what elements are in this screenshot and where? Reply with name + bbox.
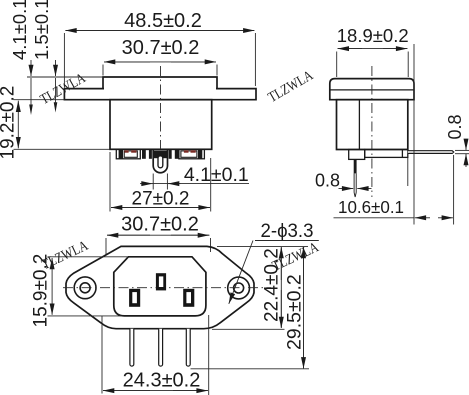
svg-text:0.8: 0.8 xyxy=(445,114,465,139)
label 4.1 leader and arrows xyxy=(30,60,32,76)
svg-text:2-ϕ3.3: 2-ϕ3.3 xyxy=(261,221,314,242)
svg-text:24.3±0.2: 24.3±0.2 xyxy=(123,369,201,391)
dim 48.5 line xyxy=(66,30,254,32)
svg-text:0.8: 0.8 xyxy=(315,171,340,191)
ext line 22.4 bottom xyxy=(212,328,285,330)
view3 right mounting hole xyxy=(228,277,250,299)
view3 right pin xyxy=(183,289,194,307)
dim 4.1 bottom shelf xyxy=(152,183,249,185)
ext line pins bottom xyxy=(191,368,310,370)
view1 tab top dark band xyxy=(153,151,167,159)
ext line strip right edge xyxy=(407,158,409,187)
ext line flange bottom left xyxy=(14,99,65,101)
dim 0.8 right arrows xyxy=(465,140,467,150)
dim 4.1 bottom arrows xyxy=(140,183,153,185)
view1 face housing xyxy=(103,77,217,89)
view2 body xyxy=(337,100,408,150)
view3 leg 1 xyxy=(130,329,134,366)
view1 terminal bar C xyxy=(169,149,172,159)
dim 15.9 line xyxy=(51,258,53,290)
view2 flange cap xyxy=(330,79,414,100)
svg-text:29.5±0.2: 29.5±0.2 xyxy=(284,274,306,350)
ext line body bottom left xyxy=(14,148,111,150)
dim 22.4 line xyxy=(280,248,282,328)
svg-text:4.1±0.1: 4.1±0.1 xyxy=(184,164,249,186)
view1 terminal bar D xyxy=(175,149,179,159)
view3 leg 3 xyxy=(186,329,190,366)
view1 flange plate xyxy=(64,89,256,100)
view3 ground pin xyxy=(156,273,166,290)
dim 30.7 ext lines (view1) xyxy=(102,65,104,76)
view1 terminal left inner xyxy=(124,151,137,157)
dim 19.2 line xyxy=(17,101,19,120)
view1 terminal bar A xyxy=(142,149,146,159)
dim 29.5 line xyxy=(303,248,305,369)
ext line face top left xyxy=(27,76,103,78)
dim 24.3 ext lines xyxy=(101,316,103,394)
view2 bottom strip left xyxy=(349,150,365,160)
ext line plate top right xyxy=(217,245,308,247)
view1 tab hole xyxy=(158,156,163,168)
view1 center screw tab xyxy=(153,149,167,172)
view2 bottom strip right xyxy=(365,150,408,158)
dim 0.8 left arrows xyxy=(339,188,354,190)
label 2-phi3.3 leader xyxy=(229,241,253,304)
view2 strip divider xyxy=(401,150,403,158)
svg-text:30.7±0.2: 30.7±0.2 xyxy=(121,213,199,235)
dim 10.6 arrows xyxy=(415,217,430,219)
view2 vertical pin xyxy=(354,159,357,173)
dim 27 line xyxy=(111,207,210,209)
dim 27 ext lines xyxy=(109,152,111,212)
dim 4.1 bottom ext lines xyxy=(152,174,154,190)
svg-text:48.5±0.2: 48.5±0.2 xyxy=(124,10,202,32)
view3 mounting plate octagon xyxy=(66,246,254,328)
view1 terminal left red marks xyxy=(124,150,128,152)
view3 left pin xyxy=(129,289,140,307)
view1 terminal bar B xyxy=(149,149,152,159)
svg-text:30.7±0.2: 30.7±0.2 xyxy=(122,37,200,59)
dim 0.8 right ext ticks xyxy=(455,149,469,151)
dim 15.9 ext ticks xyxy=(48,256,128,258)
dim 18.9 ext lines xyxy=(336,52,338,78)
view1 terminal right red marks xyxy=(184,150,189,152)
dim 10.6 shelf xyxy=(334,217,415,219)
svg-text:10.6±0.1: 10.6±0.1 xyxy=(338,197,404,217)
view1 body xyxy=(110,100,212,150)
dim 18.9 line xyxy=(338,48,408,50)
view1 terminal left bar xyxy=(119,149,123,159)
view3 leg 2 xyxy=(159,329,163,366)
svg-text:4.1±0.1: 4.1±0.1 xyxy=(9,0,30,60)
svg-text:18.9±0.2: 18.9±0.2 xyxy=(337,25,409,46)
svg-text:1.5±0.1: 1.5±0.1 xyxy=(31,0,52,60)
label 1.5 leader and arrows xyxy=(55,60,57,76)
dim 30.7 line (view3) xyxy=(107,234,210,236)
view1 terminal left block xyxy=(116,149,140,159)
dim 30.7 ext lines (view3) xyxy=(105,238,107,256)
svg-text:19.2±0.2: 19.2±0.2 xyxy=(0,86,18,160)
view3 left mounting hole xyxy=(74,277,96,299)
dim 30.7 line (view1) xyxy=(104,61,216,63)
view3 recess outline xyxy=(114,257,206,316)
view3 centerline xyxy=(63,287,271,289)
svg-text:27±0.2: 27±0.2 xyxy=(132,188,190,209)
view1 terminal right bar xyxy=(198,149,202,159)
view2 centerline xyxy=(371,66,373,197)
view1 centerline xyxy=(160,66,162,149)
dim 10.6 ext lines xyxy=(413,44,415,225)
dim 48.5 ext lines xyxy=(63,33,65,87)
view1 terminal right inner xyxy=(181,151,197,157)
dim 24.3 line xyxy=(103,390,208,392)
view2 body inner line xyxy=(358,100,360,150)
view2 flange cap mid line xyxy=(330,89,414,91)
view2 horizontal pin xyxy=(408,151,454,154)
label 2-phi3.3 shelf xyxy=(255,240,319,242)
view1 terminal right block xyxy=(179,149,205,159)
